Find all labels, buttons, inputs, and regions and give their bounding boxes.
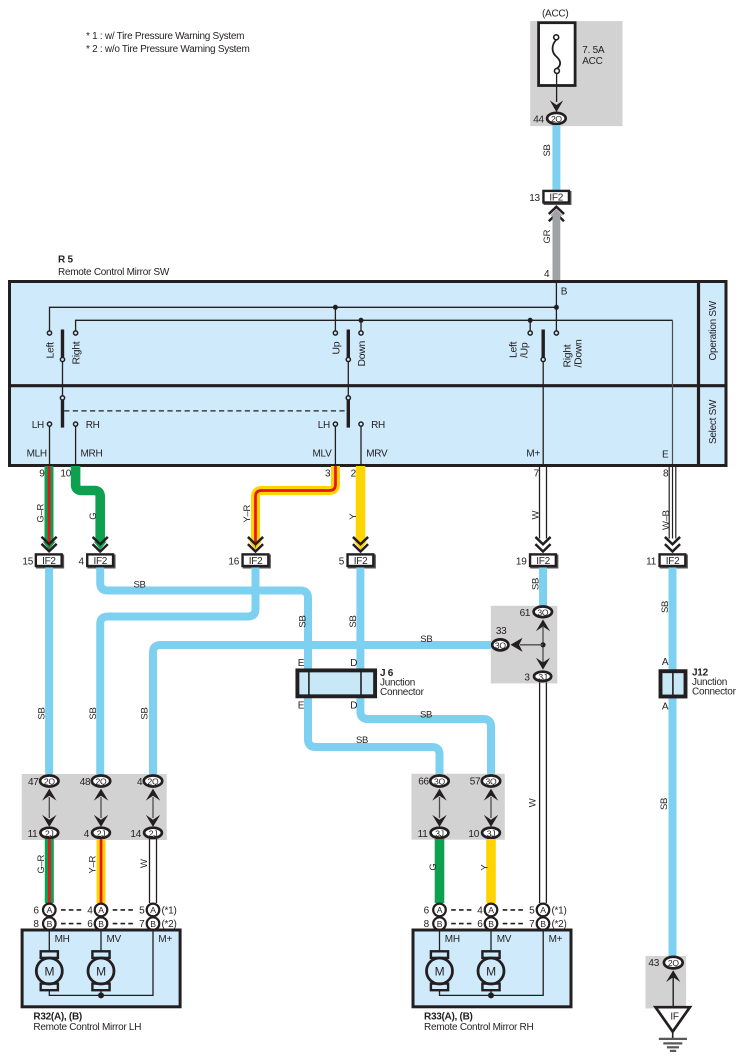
- svg-text:10: 10: [60, 469, 71, 480]
- svg-text:5: 5: [139, 906, 145, 917]
- ground symbol: [659, 1039, 687, 1051]
- fuse element: [553, 35, 561, 74]
- wire G 11 3J to A: [435, 839, 445, 903]
- wire bus line1: [50, 307, 557, 331]
- svg-text:3: 3: [325, 469, 331, 480]
- wiper circle UD: [346, 357, 350, 361]
- svg-text:2Q: 2Q: [148, 777, 159, 787]
- connector 61 3Q: [534, 607, 552, 618]
- chevrons below 13 IF2: [550, 207, 563, 221]
- svg-text:8: 8: [663, 469, 669, 480]
- contact Up: [333, 331, 337, 335]
- dash link B2-B3 LH: [113, 923, 134, 925]
- terminal B1 LH: [43, 917, 56, 930]
- svg-text:IF2: IF2: [666, 556, 680, 567]
- ground stem: [672, 1032, 674, 1038]
- svg-text:Left: Left: [45, 342, 56, 359]
- svg-text:W: W: [139, 859, 150, 868]
- svg-text:9: 9: [39, 469, 45, 480]
- svg-text:2J: 2J: [97, 828, 106, 838]
- svg-text:2J: 2J: [149, 828, 158, 838]
- chevrons above 4 IF2: [94, 538, 107, 552]
- svg-text:M: M: [486, 964, 496, 978]
- svg-text:5: 5: [339, 556, 345, 567]
- junction dot rail LH: [98, 992, 104, 998]
- svg-text:2Q: 2Q: [668, 958, 679, 968]
- wire W 3J to RH mirror: [540, 682, 547, 903]
- terminal A3 RH: [537, 904, 550, 917]
- terminal B3 LH: [147, 917, 160, 930]
- svg-text:/Down: /Down: [574, 339, 585, 368]
- connector 48 2Q: [92, 776, 110, 787]
- svg-text:3: 3: [524, 673, 530, 684]
- motor M horizontal RH: [427, 951, 453, 990]
- chevrons above 5 IF2: [354, 538, 367, 552]
- terminal A1 LH: [43, 904, 56, 917]
- connector 14 2J: [144, 828, 162, 839]
- arrow into 44 2Q: [550, 100, 563, 112]
- wire SB J6 E to 66 3Q: [308, 697, 440, 775]
- ACC fuse block background: [530, 21, 622, 126]
- select bar 2: [347, 400, 350, 428]
- svg-text:M: M: [44, 964, 54, 978]
- wire MRH: [75, 426, 77, 464]
- svg-text:3Q: 3Q: [486, 777, 497, 787]
- svg-text:10: 10: [468, 829, 479, 840]
- wiper bar LR: [61, 330, 64, 358]
- svg-text:M: M: [435, 964, 445, 978]
- connector 4 2Q: [144, 776, 162, 787]
- junction dot: [540, 642, 545, 647]
- wire MV motor2 LH: [100, 931, 102, 952]
- wire SB 16IF2 row2 to 48 2Q: [100, 568, 255, 776]
- wiper circle LR: [60, 357, 64, 361]
- svg-text:B: B: [150, 919, 156, 929]
- junction dot line1-B: [554, 305, 559, 310]
- svg-text:IF2: IF2: [354, 556, 368, 567]
- svg-text:4: 4: [477, 906, 483, 917]
- svg-text:* 1 : w/ Tire Pressure Warning: * 1 : w/ Tire Pressure Warning System: [86, 31, 244, 42]
- svg-text:Connector: Connector: [380, 687, 425, 698]
- connector 33 3Q: [492, 639, 508, 650]
- wire W-B pin8 to 11 IF2: [669, 466, 676, 539]
- svg-text:Up: Up: [331, 341, 342, 354]
- wire fuse to connector: [556, 73, 558, 102]
- terminal A3 LH: [147, 904, 160, 917]
- svg-text:2Q: 2Q: [44, 777, 55, 787]
- svg-text:Remote Control Mirror RH: Remote Control Mirror RH: [424, 1022, 533, 1033]
- stub motor2 to rail LH: [100, 990, 102, 995]
- double arrow 66-11: [432, 789, 446, 827]
- svg-text:Y–R: Y–R: [88, 856, 99, 874]
- svg-text:(*1): (*1): [162, 906, 177, 917]
- svg-text:7: 7: [534, 469, 540, 480]
- arrow left into 33 3Q: [511, 638, 523, 652]
- svg-text:16: 16: [228, 556, 239, 567]
- svg-text:Right: Right: [72, 341, 83, 364]
- junction dot line1-up: [333, 305, 338, 310]
- svg-text:IF2: IF2: [93, 556, 107, 567]
- svg-text:SB: SB: [139, 707, 150, 719]
- sidebar separator: [697, 280, 700, 467]
- junction connector J12: [661, 670, 686, 698]
- fuse 7.5A ACC box: [539, 23, 576, 86]
- svg-text:SB: SB: [530, 578, 541, 590]
- svg-text:5: 5: [529, 906, 535, 917]
- contact Right/Down: [554, 331, 558, 335]
- wire stub to Up contact: [334, 307, 336, 331]
- svg-text:M+: M+: [549, 934, 563, 945]
- wire Y 10 3J to A: [486, 839, 496, 903]
- wire E vertical: [672, 320, 674, 464]
- wiper bar UD: [347, 330, 350, 358]
- svg-text:B: B: [47, 919, 53, 929]
- wire SB 15IF2 to 47 2Q: [45, 568, 53, 776]
- svg-text:3J: 3J: [487, 828, 496, 838]
- svg-text:11: 11: [646, 556, 657, 567]
- wire SB J6 D to 57 3Q: [360, 697, 491, 775]
- svg-text:* 2 : w/o Tire Pressure Warnin: * 2 : w/o Tire Pressure Warning System: [86, 44, 250, 55]
- wire G-R pin9 to 15 IF2: [43, 466, 56, 550]
- svg-text:47: 47: [28, 777, 39, 788]
- dash link A1-A2 RH: [451, 909, 472, 911]
- svg-text:G–R: G–R: [36, 854, 47, 873]
- svg-text:3Q: 3Q: [495, 640, 506, 650]
- svg-text:W: W: [528, 798, 539, 807]
- select contact RH1: [74, 422, 78, 426]
- svg-text:SB: SB: [420, 634, 432, 645]
- svg-text:SB: SB: [134, 579, 146, 590]
- svg-text:13: 13: [529, 193, 540, 204]
- svg-text:11: 11: [418, 829, 429, 840]
- svg-text:R33(A), (B): R33(A), (B): [424, 1011, 473, 1022]
- svg-text:MV: MV: [107, 934, 122, 945]
- svg-text:RH: RH: [86, 420, 100, 431]
- svg-text:IF2: IF2: [249, 556, 263, 567]
- svg-text:A: A: [150, 905, 156, 915]
- select circle 1: [60, 396, 64, 400]
- select circle 2: [346, 396, 350, 400]
- svg-text:B: B: [540, 919, 546, 929]
- svg-text:6: 6: [33, 906, 39, 917]
- svg-text:Y: Y: [348, 513, 359, 520]
- dash link A2-A3 LH: [113, 909, 134, 911]
- svg-text:IF2: IF2: [536, 556, 550, 567]
- svg-text:A: A: [540, 905, 546, 915]
- wire MV motor2 RH: [490, 931, 492, 952]
- wiper tail LR: [62, 362, 64, 396]
- select contact LH1: [47, 422, 51, 426]
- svg-text:W: W: [531, 511, 542, 520]
- double arrow 4-14: [146, 789, 160, 827]
- svg-text:LH: LH: [318, 420, 330, 431]
- wire stub to Down contact: [360, 320, 362, 331]
- svg-text:G: G: [88, 513, 99, 520]
- terminal A1 RH: [433, 904, 446, 917]
- connector 4 IF2: [87, 554, 114, 567]
- svg-text:ACC: ACC: [582, 56, 602, 67]
- svg-text:2Q: 2Q: [551, 114, 562, 124]
- svg-text:R32(A), (B): R32(A), (B): [33, 1011, 82, 1022]
- svg-text:MRV: MRV: [366, 449, 388, 460]
- svg-text:M: M: [96, 964, 106, 978]
- link line to ground: [672, 977, 674, 1008]
- svg-text:LH: LH: [32, 420, 44, 431]
- mechanical link dashed: [64, 410, 346, 412]
- svg-text:A: A: [488, 905, 494, 915]
- link line vertical: [542, 626, 544, 663]
- svg-text:4: 4: [84, 829, 90, 840]
- wire G pin10 to 4 IF2: [76, 466, 107, 550]
- svg-text:4: 4: [137, 777, 143, 788]
- svg-text:43: 43: [648, 958, 659, 969]
- svg-text:Right: Right: [563, 344, 574, 367]
- contact Down: [359, 331, 363, 335]
- connector 4 2J: [92, 828, 110, 839]
- svg-text:Operation SW: Operation SW: [708, 300, 719, 360]
- wire M+ rail LH: [49, 931, 153, 995]
- svg-text:4: 4: [87, 906, 93, 917]
- svg-text:MV: MV: [497, 934, 512, 945]
- contact Left: [47, 331, 51, 335]
- chevrons above 15 IF2: [42, 538, 55, 552]
- svg-text:B: B: [488, 919, 494, 929]
- svg-text:SB: SB: [297, 615, 308, 627]
- chevrons above 19 IF2: [536, 538, 549, 552]
- terminal B1 RH: [433, 917, 446, 930]
- svg-text:MLH: MLH: [27, 449, 47, 460]
- svg-text:/Up: /Up: [520, 342, 531, 358]
- junction dot line2-down: [359, 318, 364, 323]
- terminal B3 RH: [537, 917, 550, 930]
- dash link A1-A2 LH: [61, 909, 82, 911]
- switch box R5 body: [10, 282, 727, 466]
- svg-text:SB: SB: [356, 735, 368, 746]
- svg-text:GR: GR: [542, 229, 553, 243]
- svg-text:A: A: [662, 657, 669, 668]
- wiper tail UD: [347, 362, 349, 396]
- connector 15 IF2: [36, 554, 63, 567]
- arrow up into 61 3Q: [536, 619, 550, 631]
- wire W 14 2J to A: [150, 839, 157, 903]
- wire MLH: [49, 426, 51, 464]
- terminal A2 LH: [95, 904, 108, 917]
- connector 11 IF2: [660, 554, 687, 567]
- double arrow 57-10: [484, 789, 498, 827]
- svg-text:SB: SB: [660, 601, 671, 613]
- connector 43 2Q: [664, 957, 683, 969]
- svg-text:A: A: [98, 905, 104, 915]
- svg-text:4: 4: [79, 556, 85, 567]
- label J12: [692, 668, 737, 698]
- svg-text:3J: 3J: [435, 828, 444, 838]
- svg-text:MLV: MLV: [313, 449, 333, 460]
- select bar 1: [61, 400, 64, 428]
- wire stub to Right/Down contact: [555, 307, 557, 331]
- svg-text:SB: SB: [659, 798, 670, 810]
- dash link B1-B2 LH: [61, 923, 82, 925]
- svg-text:Y–R: Y–R: [242, 505, 253, 523]
- wire Y-R 4 2J to A: [97, 839, 106, 903]
- double arrow 48-4: [94, 789, 108, 827]
- wire stub to Left/Up contact: [529, 320, 531, 331]
- link line horizontal: [520, 644, 543, 646]
- svg-text:Y: Y: [479, 864, 490, 871]
- wire SB row3 33 3Q to 4 2Q: [153, 645, 491, 775]
- connector 13 IF2: [543, 191, 570, 204]
- gray block 2Q/2J LH: [22, 774, 167, 840]
- dash link B1-B2 RH: [451, 923, 472, 925]
- svg-text:B: B: [98, 919, 104, 929]
- chevrons above 11 IF2: [666, 538, 679, 552]
- mirror box R32: [22, 930, 180, 1007]
- connector 10 3J: [482, 828, 500, 839]
- wiper bar LURD: [542, 330, 545, 358]
- svg-text:RH: RH: [371, 420, 385, 431]
- gray block 3Q junction: [491, 606, 558, 684]
- svg-text:(ACC): (ACC): [542, 9, 568, 20]
- svg-text:19: 19: [516, 556, 527, 567]
- wire Y pin2 to 5 IF2: [354, 466, 367, 550]
- arrow down into 3 3J: [536, 658, 550, 670]
- svg-text:33: 33: [496, 626, 507, 637]
- svg-text:IF2: IF2: [42, 556, 56, 567]
- mirror box R33: [413, 930, 571, 1007]
- motor M horizontal LH: [36, 951, 62, 990]
- svg-text:IF2: IF2: [549, 193, 563, 204]
- svg-text:D: D: [350, 658, 357, 669]
- svg-text:7. 5A: 7. 5A: [582, 45, 605, 56]
- svg-text:6: 6: [424, 906, 430, 917]
- svg-text:3Q: 3Q: [434, 777, 445, 787]
- ground triangle IF: [656, 1007, 690, 1031]
- terminal B2 RH: [485, 917, 498, 930]
- dash link B2-B3 RH: [503, 923, 524, 925]
- wire MH motor1 RH: [439, 931, 441, 952]
- terminal B2 LH: [95, 917, 108, 930]
- node B entry wire: [555, 282, 557, 307]
- connector 57 3Q: [482, 776, 500, 787]
- motor M vertical LH: [88, 951, 114, 990]
- junction dot rail RH: [488, 992, 494, 998]
- wire MRV: [360, 426, 362, 464]
- contact Right: [74, 331, 78, 335]
- svg-text:M+: M+: [526, 449, 540, 460]
- svg-text:MRH: MRH: [81, 449, 103, 460]
- wire SB 4IF2 row1 to J6 E: [100, 568, 308, 671]
- svg-text:B: B: [561, 287, 568, 298]
- chevrons above 16 IF2: [249, 538, 262, 552]
- svg-text:G: G: [428, 863, 439, 870]
- svg-text:SB: SB: [420, 709, 432, 720]
- select contact RH2: [359, 422, 363, 426]
- svg-text:MH: MH: [55, 934, 70, 945]
- svg-text:Remote Control Mirror SW: Remote Control Mirror SW: [58, 267, 170, 278]
- svg-text:4: 4: [544, 269, 550, 280]
- svg-text:Select SW: Select SW: [708, 399, 719, 444]
- svg-text:A: A: [47, 905, 53, 915]
- terminal A2 RH: [485, 904, 498, 917]
- label J6: [380, 668, 425, 698]
- svg-text:A: A: [662, 702, 669, 713]
- wire MH motor1 LH: [48, 931, 50, 952]
- wire M+ vertical: [542, 362, 544, 464]
- wire GR gray: [550, 209, 562, 282]
- connector 3 3J: [534, 672, 551, 682]
- wire SB 11IF2 through J12 to 43 2Q: [669, 568, 677, 957]
- svg-text:Connector: Connector: [692, 687, 737, 698]
- svg-text:R 5: R 5: [58, 255, 73, 266]
- label Left/Up: [509, 341, 531, 358]
- stub motor2 to rail RH: [490, 990, 492, 995]
- svg-text:E: E: [298, 701, 305, 712]
- double arrow 47-11: [42, 789, 56, 827]
- svg-text:(*1): (*1): [552, 906, 567, 917]
- svg-text:SB: SB: [37, 707, 48, 719]
- connector 19 IF2: [530, 554, 557, 567]
- wire W pin7 to 19 IF2: [540, 466, 547, 539]
- svg-text:57: 57: [470, 777, 481, 788]
- wire Y-R pin3 to 16 IF2: [249, 466, 336, 550]
- motor M vertical RH: [478, 951, 504, 990]
- select contact LH2: [333, 422, 337, 426]
- contact Left/Up: [528, 331, 532, 335]
- svg-text:Remote Control Mirror LH: Remote Control Mirror LH: [33, 1022, 141, 1033]
- connector 66 3Q: [430, 776, 448, 787]
- svg-text:2J: 2J: [45, 828, 54, 838]
- wire MLV: [334, 426, 336, 464]
- svg-text:SB: SB: [88, 707, 99, 719]
- svg-text:3J: 3J: [538, 672, 547, 682]
- junction connector J6: [297, 669, 375, 697]
- svg-text:E: E: [298, 658, 305, 669]
- connector 44 2Q: [547, 113, 566, 124]
- wire M+ rail RH: [440, 931, 544, 995]
- connector 16 IF2: [243, 554, 270, 567]
- junction dot line2-leftup: [528, 318, 533, 323]
- wire bus line2: [76, 320, 673, 331]
- connector 5 IF2: [348, 554, 375, 567]
- label Right/Down: [563, 339, 585, 368]
- divider operation/select: [8, 384, 728, 387]
- svg-text:D: D: [350, 701, 357, 712]
- wiper circle LURD: [541, 357, 545, 361]
- connector 11 3J: [431, 828, 449, 839]
- connector 47 2Q: [40, 776, 58, 787]
- svg-text:E: E: [662, 450, 669, 461]
- gray block 43 2Q: [646, 956, 687, 1008]
- svg-text:W–B: W–B: [661, 510, 672, 530]
- svg-text:48: 48: [80, 777, 91, 788]
- svg-text:61: 61: [520, 608, 531, 619]
- svg-text:14: 14: [130, 829, 141, 840]
- svg-text:IF: IF: [670, 1012, 678, 1023]
- svg-text:Left: Left: [509, 341, 520, 358]
- svg-text:11: 11: [28, 829, 39, 840]
- svg-text:A: A: [437, 905, 443, 915]
- gray block 3Q/3J RH: [412, 774, 505, 840]
- svg-text:15: 15: [22, 556, 33, 567]
- svg-text:MH: MH: [445, 934, 460, 945]
- svg-text:M+: M+: [158, 934, 172, 945]
- svg-text:SB: SB: [348, 615, 359, 627]
- svg-text:SB: SB: [542, 144, 553, 156]
- connector 11 2J: [40, 828, 58, 839]
- wire SB top: [552, 125, 560, 190]
- wire SB 19IF2 to 61 3Q: [539, 568, 547, 608]
- svg-text:B: B: [437, 919, 443, 929]
- wire G-R 11 2J to A: [45, 839, 54, 903]
